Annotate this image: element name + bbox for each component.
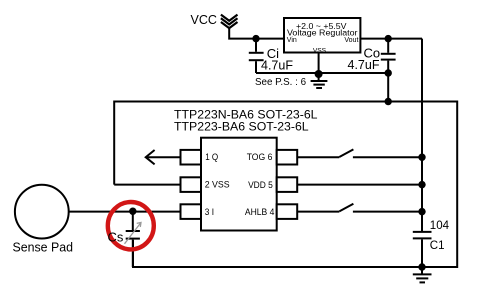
- svg-text:3 I: 3 I: [205, 207, 214, 218]
- svg-text:104: 104: [430, 220, 450, 232]
- pin label 1 Q: [205, 152, 218, 163]
- wire sense pad to pin 3 I: [69, 211, 181, 213]
- junction dot Cs: [129, 208, 136, 215]
- note See P.S. : 6: [255, 77, 307, 88]
- pin label 2 VSS: [205, 180, 230, 191]
- wire VSS pin 2 to loop: [114, 184, 180, 186]
- wire VSS ground to Co bottom: [319, 72, 389, 74]
- label Cs: [108, 229, 124, 244]
- label TTP223N-BA6 SOT-23-6L: [174, 107, 318, 121]
- wire Q output with arrow: [146, 150, 181, 164]
- pin 1 Q box: [181, 150, 202, 165]
- pin 2 VSS box: [181, 177, 202, 192]
- value 104 (C1): [430, 220, 450, 232]
- pin label VDD 5: [248, 180, 273, 191]
- label Ci: [267, 46, 279, 61]
- junction dot rail TOG: [418, 154, 425, 161]
- svg-text:Voltage Regulator: Voltage Regulator: [287, 27, 358, 37]
- junction dot VSS loop top: [385, 98, 392, 105]
- svg-text:See P.S. : 6: See P.S. : 6: [255, 77, 307, 88]
- svg-text:AHLB 4: AHLB 4: [245, 207, 275, 218]
- IC U1 TTP223 body: [201, 138, 277, 231]
- svg-text:VCC: VCC: [191, 13, 217, 27]
- svg-text:1 Q: 1 Q: [205, 152, 218, 163]
- power symbol VCC (triple chevron): [221, 15, 238, 29]
- trimmer arrow on Cs: [125, 223, 142, 244]
- switch S2 (AHLB): [297, 204, 422, 212]
- pin 3 I box: [181, 204, 202, 219]
- wire regulator VSS down: [318, 53, 320, 74]
- svg-text:VDD 5: VDD 5: [248, 180, 273, 191]
- value 4.7uF (Co): [348, 58, 380, 72]
- capacitor Co: [381, 39, 396, 73]
- wire Co bottom to VSS loop top: [387, 73, 389, 102]
- svg-text:4.7uF: 4.7uF: [348, 58, 380, 72]
- wire VDD pin 5 to rail: [297, 184, 422, 186]
- node VCC label: [191, 13, 217, 27]
- svg-text:TOG 6: TOG 6: [247, 152, 273, 163]
- voltage regulator U2: [284, 18, 360, 54]
- junction dot rail AHLB: [418, 208, 425, 215]
- wire VSS loop (top, left, right, bottom): [114, 102, 457, 268]
- svg-text:4.7uF: 4.7uF: [261, 59, 293, 73]
- wire VDD rail: [421, 39, 423, 232]
- pin label 3 I: [205, 207, 214, 218]
- svg-text:2 VSS: 2 VSS: [205, 180, 230, 191]
- highlight red circle around Cs: [108, 202, 154, 249]
- svg-text:Sense Pad: Sense Pad: [13, 240, 74, 255]
- svg-text:TTP223-BA6 SOT-23-6L: TTP223-BA6 SOT-23-6L: [174, 120, 309, 134]
- capacitor Ci: [249, 39, 264, 73]
- junction dot Vout/Co: [385, 35, 392, 42]
- wire Ci bottom to VSS ground: [256, 72, 319, 74]
- capacitor C1: [413, 232, 432, 267]
- junction dot Co bottom: [385, 69, 392, 76]
- pin 6 TOG box: [277, 150, 298, 165]
- pin label AHLB 4: [245, 207, 275, 218]
- label Co: [364, 46, 381, 61]
- value 4.7uF (Ci): [261, 59, 293, 73]
- junction dot bottom ground: [418, 263, 425, 270]
- switch S1 (TOG): [297, 149, 422, 157]
- pin 5 VDD box: [277, 177, 298, 192]
- pin label TOG 6: [247, 152, 273, 163]
- svg-text:VSS: VSS: [313, 47, 327, 54]
- ground (bottom right): [413, 267, 432, 282]
- label C1: [430, 240, 445, 252]
- wire VCC stem to Vin: [229, 27, 284, 39]
- wire Vout to VDD rail: [360, 38, 422, 40]
- svg-text:Vin: Vin: [287, 37, 297, 44]
- sense pad electrode: [15, 185, 69, 239]
- svg-text:Cs: Cs: [108, 229, 124, 244]
- svg-text:Vout: Vout: [344, 37, 358, 44]
- junction dot rail VDD: [418, 181, 425, 188]
- capacitor Cs (variable): [126, 212, 140, 267]
- pin 4 AHLB box: [277, 204, 298, 219]
- junction dot VSS ground: [315, 70, 323, 78]
- label TTP223-BA6 SOT-23-6L: [174, 120, 309, 134]
- label Sense Pad: [13, 240, 74, 255]
- svg-text:C1: C1: [430, 240, 445, 252]
- junction dot VCC/Ci: [252, 35, 259, 42]
- ground (regulator VSS): [311, 73, 328, 88]
